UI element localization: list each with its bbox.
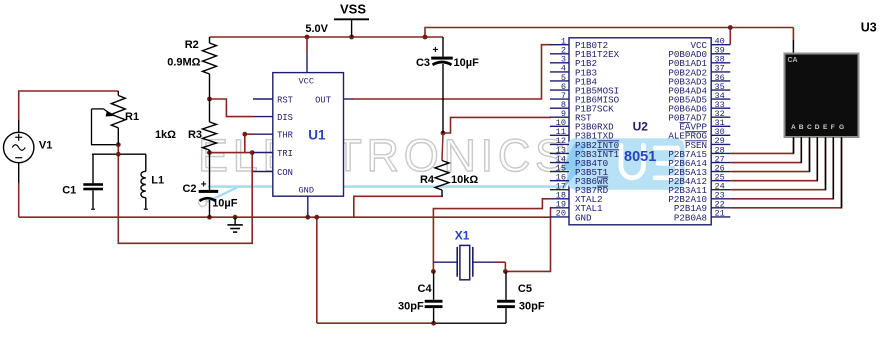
- crystal X1: [433, 229, 505, 280]
- svg-text:30pF: 30pF: [519, 301, 545, 313]
- svg-text:C5: C5: [518, 283, 532, 295]
- svg-text:R2: R2: [185, 39, 199, 51]
- resistor R3: [155, 99, 217, 153]
- svg-text:D: D: [815, 124, 820, 131]
- display pin A: [793, 137, 795, 153]
- svg-text:U2: U2: [633, 120, 649, 134]
- wire to display CA: [792, 28, 794, 54]
- display pin G: [841, 137, 843, 208]
- capacitor C4: [398, 271, 442, 323]
- svg-text:R1: R1: [125, 111, 139, 123]
- ground: [227, 217, 242, 232]
- svg-text:RST: RST: [277, 95, 293, 105]
- svg-text:V1: V1: [39, 140, 52, 152]
- svg-text:GND: GND: [299, 186, 314, 196]
- svg-text:20: 20: [556, 209, 566, 219]
- wire OUT to 8051 pin1: [352, 45, 551, 99]
- svg-text:C1: C1: [62, 184, 76, 196]
- capacitor C3: [416, 37, 479, 133]
- resistor R2: [167, 37, 216, 99]
- resistor R4: [420, 133, 478, 196]
- svg-text:21: 21: [715, 209, 725, 219]
- wire R1 wiper loop: [92, 109, 119, 145]
- wire pin19 XTAL1 to crystal right: [505, 208, 550, 272]
- wire THR-TRI tie: [210, 134, 254, 152]
- svg-text:VCC: VCC: [299, 77, 314, 87]
- svg-text:B: B: [799, 124, 804, 131]
- svg-text:DIS: DIS: [277, 113, 293, 123]
- label 8051: [624, 149, 656, 165]
- display pin B: [800, 137, 802, 162]
- svg-text:F: F: [831, 124, 835, 131]
- wire ground rail: [19, 216, 550, 218]
- svg-text:U3: U3: [861, 21, 877, 35]
- label U2: [633, 120, 649, 134]
- svg-text:R4: R4: [420, 174, 435, 186]
- svg-text:C2: C2: [182, 183, 196, 195]
- wire R4 bottom to ground rail: [354, 196, 443, 217]
- label U3: [861, 21, 877, 35]
- svg-text:THR: THR: [277, 131, 294, 141]
- wire 5V riser to top rail: [425, 28, 793, 38]
- svg-text:OUT: OUT: [315, 95, 331, 105]
- wire V1 top to R1: [19, 91, 119, 120]
- svg-text:C3: C3: [416, 57, 430, 69]
- potentiometer R1: [92, 91, 140, 145]
- wire 5V rail: [210, 36, 444, 38]
- svg-text:G: G: [839, 124, 844, 131]
- svg-text:TRI: TRI: [277, 149, 293, 159]
- wire R2R3 junction to DIS: [210, 99, 254, 117]
- node C1-L1 top: [92, 153, 146, 155]
- svg-text:30pF: 30pF: [398, 301, 424, 313]
- wire pin18 XTAL2 to crystal left: [433, 199, 550, 272]
- svg-text:U1: U1: [308, 128, 326, 143]
- capacitor C1: [62, 154, 103, 209]
- svg-text:P2B0A8: P2B0A8: [674, 212, 707, 223]
- svg-text:ELECTRONICS: ELECTRONICS: [198, 130, 570, 181]
- wire crystal bottom rail: [317, 217, 506, 323]
- display pin E: [825, 137, 827, 190]
- svg-text:+: +: [201, 179, 207, 190]
- capacitor C5: [497, 271, 545, 323]
- inductor L1: [141, 154, 164, 209]
- label 5.0V: [305, 23, 328, 35]
- svg-text:CA: CA: [788, 57, 798, 64]
- ic U2 pins: [550, 37, 730, 224]
- wire R1 bottom node down / loop: [118, 145, 252, 244]
- svg-text:X1: X1: [455, 229, 470, 243]
- wire C3/R4 node to pin9 RST: [443, 117, 551, 133]
- svg-text:A: A: [791, 124, 796, 131]
- source V1: [4, 120, 53, 183]
- svg-text:C: C: [807, 124, 812, 131]
- display pin F: [832, 137, 834, 199]
- wire 8051 P2 to display segments: [730, 137, 841, 208]
- svg-text:1kΩ: 1kΩ: [155, 129, 176, 141]
- svg-text:5.0V: 5.0V: [305, 23, 328, 35]
- display pin C: [809, 137, 811, 171]
- wire VCC U2 pin40: [729, 28, 731, 45]
- svg-text:10µF: 10µF: [454, 57, 480, 69]
- svg-text:+: +: [433, 45, 439, 56]
- op-amp U1 555 timer: [253, 37, 353, 217]
- svg-text:0.9MΩ: 0.9MΩ: [167, 57, 200, 69]
- svg-text:L1: L1: [151, 174, 164, 186]
- svg-text:E: E: [823, 124, 828, 131]
- display pin D: [816, 137, 818, 180]
- capacitor C2: [182, 153, 237, 218]
- svg-text:CON: CON: [277, 168, 293, 178]
- svg-text:R3: R3: [188, 129, 202, 141]
- ic U2 8051 body: [562, 38, 712, 225]
- svg-text:C4: C4: [418, 283, 433, 295]
- svg-text:8051: 8051: [624, 149, 656, 165]
- svg-text:10µF: 10µF: [212, 198, 238, 210]
- svg-text:GND: GND: [575, 212, 592, 223]
- wire V1 bottom: [18, 183, 20, 217]
- display U3 seven segment: [784, 53, 860, 139]
- svg-text:VSS: VSS: [340, 2, 366, 17]
- power VSS: [334, 2, 369, 38]
- svg-text:10kΩ: 10kΩ: [451, 174, 478, 186]
